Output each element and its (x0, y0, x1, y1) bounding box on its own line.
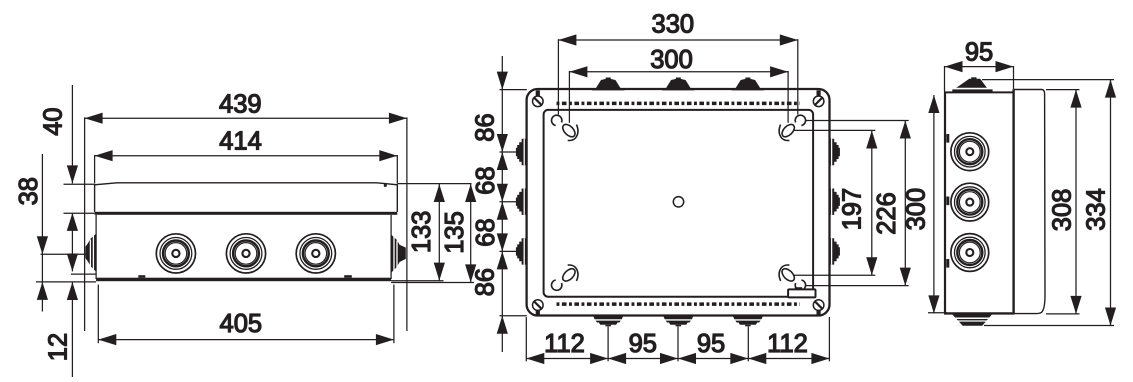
svg-text:226: 226 (873, 192, 901, 235)
top view inner rim (544, 110, 814, 297)
front knockout circle 3 (296, 234, 335, 273)
svg-text:86: 86 (472, 268, 500, 296)
left edge knockout bump 2 (516, 189, 526, 215)
corner boss mark bottom-right (779, 265, 805, 290)
bottom chain label 95 right (697, 330, 725, 358)
svg-text:95: 95 (697, 330, 725, 358)
svg-text:95: 95 (629, 330, 657, 358)
side knockout circle 2 (951, 183, 989, 221)
front knockout circle 2 (226, 234, 265, 273)
right edge knockout bump 1 (830, 139, 840, 165)
left chain dimension line (497, 56, 527, 352)
bottom edge knockout bump 3 (733, 315, 764, 326)
corner boss mark top-right (779, 115, 805, 140)
front view lid outline (95, 183, 398, 212)
front view lid vent dot (384, 184, 387, 187)
dimension 330 (558, 10, 797, 114)
front knockout circle 1 (156, 234, 195, 273)
bottom edge knockout bump 2 (663, 315, 694, 326)
side view lid bottom edge (944, 312, 1015, 314)
right edge knockout bump 3 (830, 238, 840, 264)
svg-text:439: 439 (219, 90, 262, 118)
top edge knockout bump 3 (731, 78, 764, 91)
svg-text:300: 300 (902, 188, 930, 231)
dimension 40 (39, 85, 94, 271)
left chain label 68 upper (472, 166, 500, 194)
left chain label 86 bottom (472, 268, 500, 296)
corner screw top-left (533, 90, 544, 106)
side view bottom knockout dome (952, 314, 992, 326)
side view front-face knockout tab 2 (946, 197, 949, 206)
dimension 95 (945, 39, 1014, 92)
corner screw top-right (813, 90, 824, 106)
left edge knockout bump 3 (516, 238, 526, 264)
svg-text:197: 197 (839, 188, 867, 231)
dimension 12 (44, 254, 96, 378)
dimension 308 (1046, 90, 1082, 314)
svg-text:330: 330 (652, 10, 695, 38)
bottom chain label 95 left (629, 330, 657, 358)
top view label plate (788, 287, 815, 297)
front view foot mark left (138, 275, 145, 278)
dimension 414 (95, 128, 398, 184)
top view center hole (673, 197, 683, 207)
front view body right edge (390, 215, 392, 279)
dimension 197 (793, 130, 877, 275)
side knockout circle 3 (951, 234, 989, 272)
bottom chain label 112 right (767, 330, 808, 358)
front view lid bottom edge (thick) (95, 212, 398, 215)
front view right side knockout cone (391, 235, 406, 273)
dimension 38 (15, 154, 96, 312)
left chain label 86 top (472, 113, 500, 141)
side view lid left edge (944, 92, 946, 313)
svg-text:308: 308 (1049, 189, 1077, 232)
bottom chain dimension (526, 317, 829, 364)
corner boss mark bottom-left (552, 265, 578, 290)
top edge knockout bump 1 (592, 78, 625, 91)
svg-text:135: 135 (441, 211, 469, 254)
dimension 226 (806, 121, 911, 286)
dimension 439 (85, 90, 407, 331)
dimension 334 (982, 80, 1116, 326)
svg-text:68: 68 (472, 166, 500, 194)
svg-text:95: 95 (965, 39, 993, 67)
svg-text:414: 414 (219, 128, 262, 156)
svg-text:334: 334 (1082, 188, 1110, 231)
left edge knockout bump 1 (516, 139, 526, 165)
dimension 300 top (569, 46, 788, 123)
front view foot mark right (344, 275, 352, 278)
top edge knockout bump 2 (662, 78, 695, 91)
svg-text:133: 133 (408, 211, 436, 254)
svg-text:40: 40 (39, 107, 67, 135)
svg-text:112: 112 (767, 330, 808, 358)
side view lid/body separator (1012, 89, 1014, 314)
front view left side knockout cone (85, 234, 96, 272)
side knockout circle 1 (951, 133, 989, 171)
top view serrated strip bottom (557, 302, 800, 306)
side view lid top edge (944, 91, 1014, 93)
front view body left edge (95, 215, 97, 279)
dimension 135 (391, 184, 476, 283)
svg-text:112: 112 (544, 330, 585, 358)
svg-text:86: 86 (472, 113, 500, 141)
left chain label 68 lower (472, 218, 500, 246)
side view front-face knockout tab 1 (946, 134, 949, 143)
top view serrated strip top (557, 102, 800, 106)
top view outer box (527, 89, 830, 316)
svg-text:68: 68 (472, 218, 500, 246)
svg-text:405: 405 (220, 310, 263, 338)
front view body bottom edge (thick) (96, 278, 391, 282)
dimension 133 (391, 184, 471, 281)
right edge knockout bump 2 (830, 189, 840, 215)
svg-text:300: 300 (650, 46, 693, 74)
bottom edge knockout bump 1 (593, 315, 624, 326)
svg-text:38: 38 (15, 177, 43, 205)
bottom chain label 112 left (544, 330, 585, 358)
corner screw bottom-right (813, 300, 824, 315)
corner screw bottom-left (533, 300, 544, 315)
side view front-face knockout tab 3 (946, 259, 949, 268)
corner boss mark top-left (552, 115, 578, 140)
dimension 300 right (902, 95, 947, 313)
dimension 405 (98, 285, 394, 346)
side view body outline (1014, 90, 1045, 314)
side view top knockout dome (952, 77, 992, 93)
svg-text:12: 12 (44, 333, 72, 361)
